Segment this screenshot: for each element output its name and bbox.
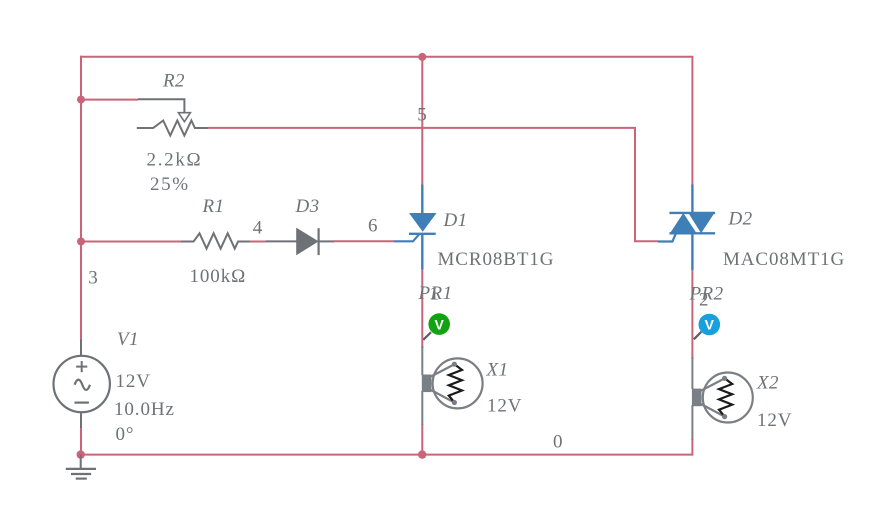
value 12V lamp X2 xyxy=(757,410,792,431)
lamp X2 xyxy=(692,357,753,440)
junction dot R1 branch xyxy=(77,238,85,246)
ground xyxy=(66,455,96,479)
value 10.0Hz xyxy=(114,399,175,420)
label R2 xyxy=(162,71,185,92)
wire left vertical net3 xyxy=(80,56,82,340)
net number 2 xyxy=(699,290,709,311)
wire R1 line from left rail xyxy=(81,241,181,243)
value 25% xyxy=(150,174,190,195)
svg-text:0: 0 xyxy=(553,432,563,453)
label X1 xyxy=(486,360,509,381)
svg-text:PR1: PR1 xyxy=(418,283,453,304)
node label 0 xyxy=(553,432,563,453)
junction dot top net5 xyxy=(418,53,426,61)
node label 5 xyxy=(417,105,427,126)
value 0deg xyxy=(116,424,135,445)
diode D3 xyxy=(266,228,334,255)
node label 4 xyxy=(253,218,263,239)
svg-text:100kΩ: 100kΩ xyxy=(190,266,247,287)
resistor R1 xyxy=(181,233,250,248)
wire top horizontal xyxy=(80,56,693,58)
label D1 xyxy=(443,210,468,231)
svg-text:10.0Hz: 10.0Hz xyxy=(114,399,175,420)
wire V1 bottom to ground rail xyxy=(80,427,82,456)
label X2 xyxy=(756,373,779,394)
SCR D1 xyxy=(394,185,437,270)
svg-text:0°: 0° xyxy=(116,424,135,445)
svg-text:2.2kΩ: 2.2kΩ xyxy=(147,150,203,171)
svg-text:X1: X1 xyxy=(486,360,509,381)
svg-text:V: V xyxy=(435,316,445,332)
svg-text:R2: R2 xyxy=(162,71,185,92)
net number 1 xyxy=(430,284,440,305)
node label 6 xyxy=(368,216,378,237)
label PR1 xyxy=(418,283,453,304)
svg-text:12V: 12V xyxy=(757,410,792,431)
value MAC08MT1G xyxy=(723,249,845,270)
lamp X1 xyxy=(422,346,483,425)
value 100kOhm xyxy=(190,266,247,287)
wire right vertical to D2 xyxy=(691,57,693,186)
svg-text:12V: 12V xyxy=(487,396,522,417)
wire D2 bottom down to lamp X2 xyxy=(691,269,693,456)
svg-text:D1: D1 xyxy=(443,210,468,231)
svg-text:R1: R1 xyxy=(202,196,225,217)
svg-text:V1: V1 xyxy=(117,329,139,350)
value 12V source xyxy=(116,371,151,392)
svg-text:5: 5 xyxy=(417,105,427,126)
svg-text:25%: 25% xyxy=(150,174,190,195)
probe PR2 xyxy=(694,314,720,340)
svg-text:D2: D2 xyxy=(728,209,753,230)
svg-text:12V: 12V xyxy=(116,371,151,392)
value 12V lamp X1 xyxy=(487,396,522,417)
label R1 xyxy=(202,196,225,217)
svg-text:3: 3 xyxy=(88,268,98,289)
label D2 xyxy=(728,209,753,230)
wire node4 between R1 and D3 xyxy=(250,241,266,243)
potentiometer R2 xyxy=(137,99,208,135)
label PR2 xyxy=(689,284,724,305)
svg-text:PR2: PR2 xyxy=(689,284,724,305)
junction dot X1 bottom xyxy=(418,450,426,458)
triac D2 xyxy=(658,185,715,271)
node label 3 xyxy=(88,268,98,289)
value MCR08BT1G xyxy=(438,249,555,270)
junction dot pot feed xyxy=(77,96,85,104)
svg-text:MCR08BT1G: MCR08BT1G xyxy=(438,249,555,270)
probe PR1 xyxy=(423,313,450,339)
AC source V1 xyxy=(53,339,109,428)
label D3 xyxy=(295,196,320,217)
svg-text:4: 4 xyxy=(253,218,263,239)
value 2.2kOhm xyxy=(147,150,203,171)
wire bottom ground rail net0 xyxy=(81,454,693,456)
svg-text:X2: X2 xyxy=(756,373,779,394)
wire pot output to D2 gate xyxy=(208,128,658,241)
svg-text:MAC08MT1G: MAC08MT1G xyxy=(723,249,845,270)
svg-text:6: 6 xyxy=(368,216,378,237)
wire net5 vertical to D1 xyxy=(421,57,423,186)
svg-text:V: V xyxy=(705,317,715,333)
wire node6 D3 to D1 gate xyxy=(334,240,394,242)
svg-text:D3: D3 xyxy=(295,196,320,217)
wire pot wiper feed xyxy=(81,99,138,101)
wire D1 cathode down to lamp X1 xyxy=(421,269,423,456)
junction dot ground xyxy=(77,450,85,458)
label V1 xyxy=(117,329,139,350)
